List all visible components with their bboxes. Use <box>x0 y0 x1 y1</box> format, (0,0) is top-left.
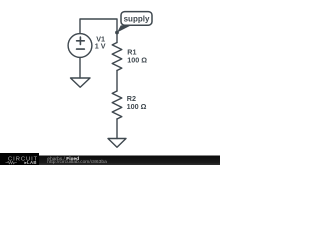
svg-text:supply: supply <box>124 15 150 24</box>
svg-text:1 V: 1 V <box>95 42 106 51</box>
svg-text:100 Ω: 100 Ω <box>127 102 147 111</box>
svg-text:▸LAB: ▸LAB <box>24 160 37 165</box>
svg-text:http://circuitlab.com/c863ba: http://circuitlab.com/c863ba <box>47 159 107 165</box>
svg-text:100 Ω: 100 Ω <box>127 56 147 65</box>
